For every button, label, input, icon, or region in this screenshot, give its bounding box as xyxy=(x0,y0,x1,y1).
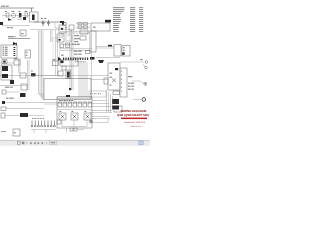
svg-text:QSB (QSB-MAXPF 500) SET: QSB (QSB-MAXPF 500) SET xyxy=(117,113,150,117)
wire rows lower right xyxy=(90,101,112,113)
wire rows into box xyxy=(44,103,57,105)
sensor box 2 xyxy=(62,66,66,70)
interface module xyxy=(96,45,130,57)
label xyxy=(6,98,9,99)
switch S2 xyxy=(25,13,28,17)
diode bowtie D1 xyxy=(13,42,17,45)
fuel shutoff FS1 xyxy=(98,60,104,63)
wire component row xyxy=(2,15,30,17)
net label row xyxy=(89,93,92,94)
switch S1 xyxy=(6,13,9,17)
ground lug xyxy=(0,22,3,25)
wire bundle vertical left xyxy=(39,30,44,100)
comb bus wire xyxy=(31,130,56,134)
engine junction box xyxy=(57,97,92,128)
wire stub xyxy=(30,75,60,77)
sensor module A xyxy=(57,34,64,42)
riser bundle xyxy=(107,90,113,113)
toolbar grid icon xyxy=(22,142,25,145)
connector J3 pin column xyxy=(14,47,16,56)
wire long feed xyxy=(2,25,30,27)
wire pair center-left xyxy=(56,30,58,75)
label plate xyxy=(105,20,111,23)
alternator box xyxy=(108,63,120,90)
breaker CB1 xyxy=(23,17,26,20)
toolbar first-page icon xyxy=(30,142,32,145)
wire top feed xyxy=(30,29,72,31)
legend wire color table xyxy=(113,7,143,32)
connector J2 xyxy=(59,25,66,33)
ground stud xyxy=(133,99,141,101)
toolbar next icon xyxy=(38,142,40,145)
wire elbow up xyxy=(93,118,108,123)
battery B1 xyxy=(30,12,39,22)
title red rule xyxy=(121,118,147,120)
junction box TB1 xyxy=(80,30,88,34)
sender unit xyxy=(114,106,122,112)
wire lamp feed xyxy=(0,62,14,64)
switch S4 xyxy=(48,20,50,26)
comb connector row xyxy=(31,121,55,127)
resistor block xyxy=(10,80,14,84)
wire top bus xyxy=(0,8,34,12)
wedge arrow xyxy=(58,57,62,61)
toolbar prev icon xyxy=(34,142,36,145)
net label right xyxy=(128,76,132,77)
temp switch xyxy=(1,107,6,110)
small device xyxy=(104,78,108,84)
lamp box xyxy=(14,60,20,65)
magnetic pickup xyxy=(89,120,92,123)
relay enclosure xyxy=(1,65,12,80)
switch box xyxy=(20,73,26,78)
wire xyxy=(6,108,44,110)
junction dot xyxy=(69,88,71,90)
wire bus xyxy=(57,109,92,111)
diode X mark xyxy=(112,79,116,83)
node TOP-LEFT title text xyxy=(1,6,5,7)
junction tap xyxy=(60,21,64,23)
heater block solid xyxy=(20,113,28,117)
svg-text:Sheet 41 of 61: Sheet 41 of 61 xyxy=(131,125,142,128)
wire xyxy=(5,102,44,104)
wire bus left xyxy=(8,36,14,37)
aux connector cluster xyxy=(62,23,66,26)
wire drop center-bottom xyxy=(66,128,68,133)
wire elbows from bundle xyxy=(39,94,45,100)
wire connector drops xyxy=(19,58,21,73)
wire rows bottom xyxy=(92,117,110,119)
switch S3 xyxy=(42,20,44,26)
solenoid group 1 xyxy=(59,113,66,120)
long wire row A xyxy=(0,75,108,77)
fuse pair xyxy=(70,128,73,131)
toolbar sep dot xyxy=(26,142,27,143)
gauge M1 xyxy=(12,13,16,18)
panel box xyxy=(20,30,26,36)
terminal strip marks xyxy=(86,51,91,54)
dark module A xyxy=(112,99,119,104)
center net names xyxy=(61,55,64,56)
terminal block small xyxy=(57,120,61,124)
wire drops xyxy=(62,120,87,127)
connector J4 xyxy=(25,50,31,58)
wire bundle mid xyxy=(70,30,73,90)
junction box xyxy=(21,84,27,90)
label text xyxy=(5,87,9,88)
tap mark xyxy=(66,95,70,97)
terminal box right xyxy=(120,68,127,97)
wire risers xyxy=(28,60,30,90)
wire right spine xyxy=(96,57,120,59)
wire to stud xyxy=(132,81,144,84)
relay K1 xyxy=(18,17,21,20)
wire elbow xyxy=(55,22,64,28)
top component labels xyxy=(5,11,7,12)
bottom-left connector box xyxy=(13,129,20,136)
dark module B xyxy=(112,106,119,110)
ground bar xyxy=(1,131,6,133)
sensor cluster xyxy=(80,36,86,40)
toolbar last-page icon xyxy=(42,142,44,145)
pin labels row xyxy=(74,61,77,62)
aux switch xyxy=(1,113,5,118)
long wire row B xyxy=(90,79,108,81)
inline connector xyxy=(31,73,36,76)
sender R2 xyxy=(60,44,64,48)
wire pair spur xyxy=(51,30,53,42)
solenoid labels xyxy=(60,111,62,112)
meter label frame xyxy=(89,91,106,97)
keyswitch module xyxy=(52,59,58,65)
engine enclosure xyxy=(44,79,91,100)
relay K4 solid xyxy=(20,93,26,97)
valve symbol xyxy=(8,18,12,21)
wire xyxy=(5,115,44,117)
toolbar page field xyxy=(50,141,57,144)
wire rung row xyxy=(60,32,90,34)
ECM block xyxy=(91,23,110,31)
wire to center xyxy=(34,21,64,23)
fuse holder xyxy=(2,101,5,104)
net labels right col xyxy=(128,83,130,84)
wire lower-left xyxy=(0,85,27,87)
toolbar highlighted button xyxy=(139,141,143,145)
relay module K5 xyxy=(69,25,74,30)
ground strap lug xyxy=(90,57,95,60)
instrument box xyxy=(113,91,120,94)
harness ladder cluster xyxy=(76,23,90,29)
toolbar sep dot2 xyxy=(46,142,47,143)
relay K2 solid xyxy=(2,66,8,71)
solenoid group 3 xyxy=(84,113,91,120)
wire stub xyxy=(77,129,84,131)
solenoid group 2 xyxy=(71,113,78,120)
wire label rows center xyxy=(74,35,79,36)
wire bundle right of block xyxy=(79,62,87,97)
right edge connector A xyxy=(120,61,145,63)
coil L1 xyxy=(66,70,71,79)
sensor box xyxy=(58,71,63,76)
pin row J1 xyxy=(63,58,88,60)
breaker labels xyxy=(59,100,61,101)
vertical bus right-center xyxy=(91,31,93,97)
connector header block xyxy=(60,60,78,66)
wire xyxy=(6,91,20,93)
net labels center xyxy=(72,44,74,45)
comb labels xyxy=(31,118,34,119)
sensor module B xyxy=(66,35,72,41)
cable shield outline xyxy=(53,38,60,60)
sender R3 xyxy=(66,43,70,48)
node label xyxy=(7,27,10,28)
breaker row CB xyxy=(58,102,92,107)
wire double feed xyxy=(57,97,92,99)
viewer toolbar xyxy=(0,140,150,146)
relay K3 solid xyxy=(2,74,8,78)
right edge connector B xyxy=(143,64,145,67)
toolbar page icon xyxy=(18,141,21,144)
sensor S5 xyxy=(2,60,7,64)
connector block J3 xyxy=(1,45,17,58)
svg-text:Drawing No. 0630-3378: Drawing No. 0630-3378 xyxy=(124,121,146,124)
wire rung xyxy=(60,49,92,50)
wire mid feed xyxy=(63,44,80,46)
oil pressure switch xyxy=(2,90,6,94)
fuse F1 xyxy=(19,13,21,17)
